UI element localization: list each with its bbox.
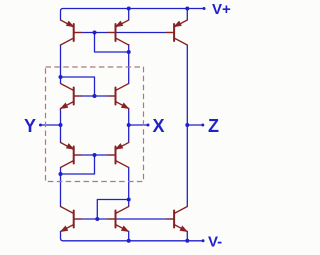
junction: Z node [185,123,189,127]
transistor Q3 (PNP output to Z) [166,20,187,45]
junction: core Q6 collector node [59,172,63,176]
wire Q3 emitter to V+ rail [186,9,188,21]
junction: Q2 collector node [127,50,131,54]
V- port dot [202,239,205,242]
V- rail [61,232,204,241]
transistor Q1 (PNP top mirror left) [61,20,82,45]
node Z wire [187,124,203,126]
core top base line [74,95,116,97]
wire: core Q6 collector down to bottom mirror Q8 collector [60,168,62,207]
node Y wire [41,124,61,126]
svg-text:V-: V- [208,234,222,251]
wire: top mirror base to Q2 collector (diode connection) [95,33,129,53]
junction: Y node [59,123,63,127]
dashed translinear core box [46,67,144,182]
core bottom base line [74,154,116,156]
transistor Q9 (NPN bottom mirror right) [108,207,130,232]
V+ rail [61,9,205,21]
V+ port dot [203,7,206,10]
junction: Q9 collector node [127,198,131,202]
bottom mirror base rail [74,218,174,220]
svg-text:X: X [153,116,165,136]
transistor Q10 (NPN output to Z) [166,207,188,232]
transistor Q7 (PNP core bottom-right) [108,143,129,168]
top mirror base rail [74,32,174,34]
junction: core Q4 collector/base tie [59,75,63,79]
junction on V+ rail at Q3 emitter [185,7,189,11]
transistor Q6 (PNP core bottom-left) [61,143,82,168]
svg-text:Z: Z [208,116,219,136]
wire: core Q7 collector down to bottom mirror Q9 collector [128,168,130,207]
junction: X node [127,123,131,127]
node: core bottom base junction [93,153,97,157]
wire: core Q4 diode connection (collector to base) [61,77,95,96]
wire Q9 emitter to V- rail [128,232,130,241]
node: top mirror base junction [93,31,97,35]
node: core top base junction [93,94,97,98]
wire Q10 emitter to V- rail [186,232,188,241]
junction on V+ rail at Q2 emitter [127,7,131,11]
wire: Y column (Q4 emitter to Q6 emitter) [60,109,62,143]
wire: Z column (Q3 collector to Q10 collector) [186,45,188,207]
wire: X column (Q5 emitter to Q7 emitter) [128,109,130,143]
wire: bottom mirror base to Q9 collector (diode connection) [97,200,128,220]
transistor Q5 (NPN core top-right) [108,84,130,109]
svg-text:V+: V+ [212,1,231,18]
transistor Q4 (NPN core top-left) [60,84,81,109]
wire Q2 emitter to V+ rail [128,9,130,21]
transistor Q2 (PNP top mirror right) [108,20,129,45]
node: bottom mirror base junction [95,217,99,221]
svg-text:Y: Y [24,116,36,136]
wire: Q1 collector down to core Q4 collector [60,45,62,84]
wire: core Q6 diode connection (collector to base) [61,155,95,174]
node X wire [129,124,148,126]
transistor Q8 (NPN bottom mirror left) [60,207,81,232]
wire: Q2 collector down to core Q5 collector [128,45,130,84]
